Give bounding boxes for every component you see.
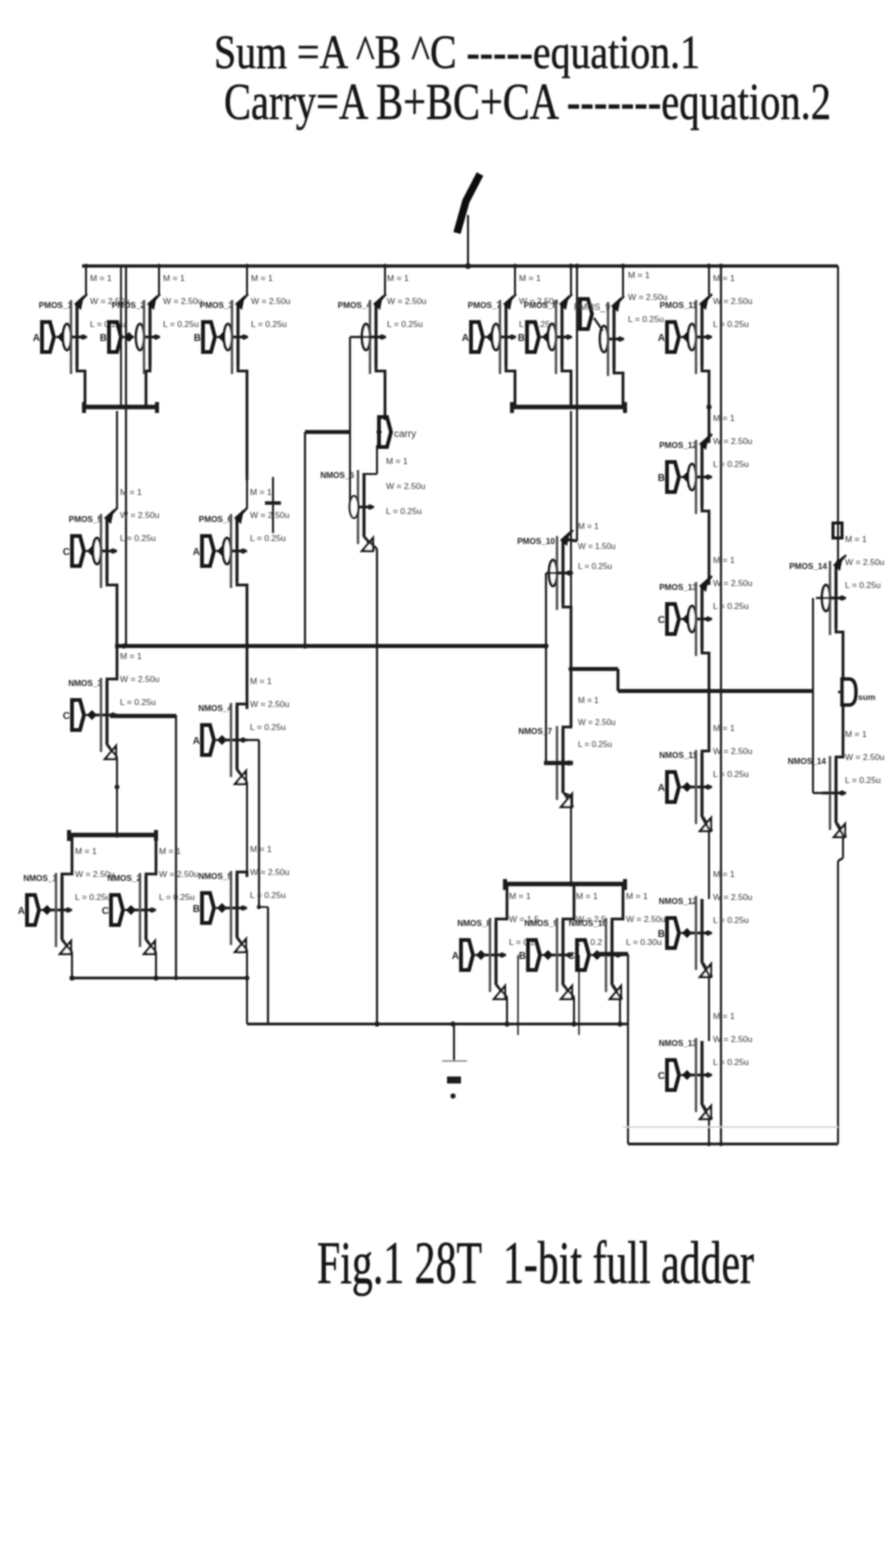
- wire NMOS_4 source: [237, 770, 247, 782]
- wire NMOS_8 gate tail: [517, 955, 519, 1035]
- svg-text:W = 2.50u: W = 2.50u: [250, 510, 290, 520]
- svg-text:L = 0.25u: L = 0.25u: [75, 892, 111, 902]
- wire NMOS_10 source: [612, 985, 620, 997]
- svg-text:L = 0.25u: L = 0.25u: [250, 890, 286, 900]
- svg-text:W = 2.50u: W = 2.50u: [120, 674, 160, 684]
- svg-text:L = 0.25u: L = 0.25u: [713, 601, 749, 611]
- svg-text:M = 1: M = 1: [628, 270, 650, 280]
- wire NMOS_13 source: [702, 1105, 709, 1117]
- node rail junctions: [84, 264, 88, 268]
- svg-text:B: B: [100, 333, 107, 344]
- wire PMOS_13 drain: [702, 647, 709, 691]
- svg-text:L = 0.30u: L = 0.30u: [626, 937, 662, 947]
- wire gate net x546: [545, 573, 547, 763]
- svg-text:W = 2.50u: W = 2.50u: [251, 296, 291, 306]
- wire net x571 mid: [570, 411, 572, 669]
- svg-text:M = 1: M = 1: [576, 891, 598, 901]
- svg-text:L = 0.25u: L = 0.25u: [713, 915, 749, 925]
- wire NMOS_8 drain: [496, 885, 507, 924]
- wire net pair left: [120, 266, 122, 407]
- svg-text:W = 2.50u: W = 2.50u: [845, 557, 885, 567]
- svg-text:NMOS_5: NMOS_5: [198, 872, 232, 881]
- svg-text:PMOS_3: PMOS_3: [200, 301, 234, 310]
- node bus junctions: [121, 643, 126, 648]
- wire NMOS_9 source: [563, 985, 574, 997]
- wire PMOS_10 source: [563, 539, 577, 541]
- wire gnd to bottom: [627, 1024, 629, 1144]
- svg-text:W = 1.50u: W = 1.50u: [578, 542, 616, 551]
- svg-text:PMOS_10: PMOS_10: [517, 537, 555, 546]
- svg-text:B: B: [658, 473, 665, 484]
- ghost line: [623, 1126, 838, 1128]
- svg-text:M = 1: M = 1: [120, 487, 142, 497]
- svg-text:C: C: [63, 711, 70, 722]
- vdd symbol: [467, 215, 469, 267]
- svg-text:PMOS_2: PMOS_2: [112, 301, 146, 310]
- pin sum output: [842, 679, 856, 705]
- svg-text:A: A: [193, 547, 200, 558]
- svg-text:A: A: [658, 783, 665, 794]
- svg-text:M = 1: M = 1: [713, 723, 735, 733]
- svg-text:Carry=A B+BC+CA -------equatio: Carry=A B+BC+CA -------equation.2: [224, 74, 831, 131]
- wire PMOS_9 drain: [614, 367, 623, 407]
- wire NMOS_9 gate tail: [578, 955, 580, 1035]
- wire carry gate drop: [304, 432, 306, 646]
- wire net x577: [576, 266, 578, 541]
- svg-text:M = 1: M = 1: [509, 891, 531, 901]
- svg-text:C: C: [658, 1071, 665, 1082]
- svg-text:PMOS_7: PMOS_7: [468, 301, 502, 310]
- svg-text:NMOS_7: NMOS_7: [518, 727, 552, 736]
- wire right edge bottom: [837, 861, 839, 1144]
- svg-text:C: C: [658, 615, 665, 626]
- wire nand1 bar: [84, 405, 157, 410]
- node NMOS_5 source junction: [245, 976, 250, 981]
- wire NMOS_5 source: [237, 938, 247, 950]
- svg-text:M = 1: M = 1: [250, 844, 272, 854]
- pin PMOS_9 raised: [580, 299, 592, 329]
- svg-text:W = 2.50u: W = 2.50u: [163, 296, 203, 306]
- svg-text:NMOS_12: NMOS_12: [659, 897, 698, 906]
- svg-text:W = 2.50u: W = 2.50u: [713, 296, 753, 306]
- svg-text:W = 2.50u: W = 2.50u: [386, 481, 426, 491]
- pin carry output: [379, 417, 391, 447]
- wire net B down-left: [125, 266, 127, 646]
- wire PMOS_2 source: [158, 266, 160, 295]
- wire right edge top: [837, 266, 839, 561]
- svg-text:W = 2.50u: W = 2.50u: [713, 746, 753, 756]
- wire NMOS_7 source: [563, 793, 571, 796]
- wire NMOS_9 drain: [563, 885, 574, 924]
- node ground junctions: [374, 1021, 379, 1026]
- svg-text:W = 2.50u: W = 2.50u: [578, 718, 616, 727]
- wire PMOS_5 drain: [107, 579, 117, 646]
- svg-text:PMOS_6: PMOS_6: [199, 515, 233, 524]
- svg-text:M = 1: M = 1: [387, 273, 409, 283]
- wire NMOS_11 drain: [702, 692, 709, 756]
- svg-text:L = 0.25u: L = 0.25u: [578, 562, 613, 571]
- wire nand2 bar: [512, 405, 625, 410]
- wire NMOS_10 drain: [612, 885, 623, 924]
- wire PMOS_9 source: [622, 266, 624, 297]
- wire PMOS_1 drain: [77, 365, 85, 407]
- wire NMOS_4 gate net: [247, 739, 259, 741]
- svg-text:L = 0.25u: L = 0.25u: [120, 697, 156, 707]
- wire NMOS_1 drain: [62, 836, 72, 879]
- node carry junction: [376, 429, 381, 434]
- svg-text:M = 1: M = 1: [120, 651, 142, 661]
- svg-text:W = 2.50u: W = 2.50u: [250, 699, 290, 709]
- svg-text:M = 1: M = 1: [626, 891, 648, 901]
- svg-text:M = 1: M = 1: [578, 522, 599, 531]
- node PMOS_11 drain junction: [706, 404, 711, 409]
- svg-text:L = 0.25u: L = 0.25u: [251, 319, 287, 329]
- svg-text:C: C: [102, 906, 109, 917]
- svg-text:B: B: [518, 333, 525, 344]
- wire bottom rail: [628, 1143, 838, 1146]
- svg-text:W = 2.50u: W = 2.50u: [626, 914, 666, 924]
- wire PMOS_10 drain: [563, 601, 571, 669]
- svg-text:L = 0.25u: L = 0.25u: [845, 775, 881, 785]
- svg-text:W = 2.50u: W = 2.50u: [120, 510, 160, 520]
- svg-text:PMOS_11: PMOS_11: [660, 301, 698, 310]
- svg-text:L = 0.25u: L = 0.25u: [713, 769, 749, 779]
- wire inverter gate: [812, 598, 814, 793]
- svg-text:M = 1: M = 1: [75, 846, 97, 856]
- wire NMOS_7 gate thick: [544, 761, 573, 765]
- svg-text:Sum =A ^B ^C -----equation.1: Sum =A ^B ^C -----equation.1: [214, 26, 700, 79]
- wire NMOS_2 source: [146, 940, 156, 952]
- wire nmos bar mid: [505, 882, 625, 887]
- svg-text:NMOS_4: NMOS_4: [198, 704, 232, 713]
- svg-text:L = 0.25u: L = 0.25u: [713, 1057, 749, 1067]
- svg-text:NMOS_14: NMOS_14: [788, 757, 827, 766]
- svg-text:M = 1: M = 1: [578, 696, 599, 705]
- svg-text:M = 1: M = 1: [386, 456, 408, 466]
- wire NMOS_1 source: [62, 940, 72, 952]
- svg-text:NMOS_11: NMOS_11: [659, 751, 697, 760]
- vdd rail: [82, 264, 838, 267]
- svg-text:NMOS_3: NMOS_3: [68, 679, 102, 688]
- svg-text:W = 2.50u: W = 2.50u: [159, 869, 199, 879]
- cross mark: [265, 501, 281, 505]
- node bar mid junction: [568, 881, 573, 886]
- svg-text:Fig.1 28T 1-bit full adder: Fig.1 28T 1-bit full adder: [317, 1230, 754, 1296]
- wire PMOS_7 drain: [506, 365, 515, 407]
- svg-text:L = 0.25u: L = 0.25u: [628, 314, 664, 324]
- svg-text:L = 0.25u: L = 0.25u: [159, 892, 195, 902]
- svg-text:M = 1: M = 1: [845, 729, 867, 739]
- svg-text:A: A: [18, 906, 25, 917]
- node source line junctions: [69, 975, 74, 980]
- svg-text:M = 1: M = 1: [713, 1011, 735, 1021]
- svg-text:carry: carry: [394, 429, 416, 440]
- svg-text:NMOS_13: NMOS_13: [659, 1039, 698, 1048]
- wire NMOS_3 source: [107, 745, 117, 757]
- svg-text:M = 1: M = 1: [713, 555, 735, 565]
- svg-text:NMOS_10: NMOS_10: [569, 919, 608, 928]
- svg-text:L = 0.25u: L = 0.25u: [713, 319, 749, 329]
- wire PMOS_3 drain: [238, 365, 247, 480]
- wire PMOS_10 gate: [546, 572, 558, 574]
- svg-text:L = 0.25u: L = 0.25u: [250, 533, 286, 543]
- node NMOS_3 source junction: [115, 785, 120, 790]
- wire NMOS_11 source: [702, 817, 709, 829]
- wire net right bus x721: [720, 266, 722, 1144]
- svg-text:C: C: [63, 547, 70, 558]
- wire PMOS_8 source: [570, 266, 572, 295]
- wire NMOS_6 drain: [364, 537, 377, 549]
- wire source line: [72, 977, 247, 980]
- svg-text:PMOS_4: PMOS_4: [338, 301, 372, 310]
- svg-text:M = 1: M = 1: [713, 273, 735, 283]
- wire PMOS_14 source: [836, 561, 838, 564]
- svg-text:M = 1: M = 1: [250, 487, 272, 497]
- wire PMOS_6 source: [246, 480, 248, 509]
- wire PMOS_11 source: [708, 266, 710, 295]
- wire PMOS_2 drain: [146, 365, 150, 407]
- wire PMOS_6 drain: [237, 579, 247, 706]
- svg-text:M = 1: M = 1: [251, 273, 273, 283]
- wire NMOS_8 source: [496, 985, 507, 997]
- svg-text:L = 0.25u: L = 0.25u: [713, 459, 749, 469]
- svg-text:A: A: [33, 333, 40, 344]
- svg-text:L = 0.25u: L = 0.25u: [578, 740, 613, 749]
- svg-text:NMOS_8: NMOS_8: [457, 919, 491, 928]
- wire NMOS_14 source: [836, 823, 843, 835]
- wire sum bus: [571, 667, 618, 671]
- svg-text:NMOS_9: NMOS_9: [524, 919, 558, 928]
- svg-text:W = 2.50u: W = 2.50u: [713, 1034, 753, 1044]
- wire PMOS_14 drain: [836, 626, 843, 679]
- wire ground rail: [247, 1023, 628, 1026]
- wire mid bus: [115, 644, 546, 648]
- wire PMOS_8 drain: [562, 365, 571, 407]
- wire NMOS_4 drain: [237, 704, 247, 709]
- wire NMOS_5 drain: [237, 872, 247, 877]
- svg-text:W = 2.50u: W = 2.50u: [713, 436, 753, 446]
- svg-text:NMOS_1: NMOS_1: [23, 874, 57, 883]
- svg-text:NMOS_2: NMOS_2: [107, 874, 141, 883]
- wire carry gate bar: [305, 430, 350, 434]
- svg-text:PMOS_8: PMOS_8: [524, 301, 558, 310]
- svg-text:B: B: [519, 951, 526, 962]
- node sum bus junctions: [568, 666, 573, 671]
- wire NMOS_3 gate thick: [110, 714, 176, 718]
- svg-text:C: C: [568, 951, 575, 962]
- svg-text:L = 0.25u: L = 0.25u: [163, 319, 199, 329]
- wire NMOS_3 drain: [107, 647, 117, 684]
- svg-text:M = 1: M = 1: [713, 413, 735, 423]
- ground symbol: [453, 1024, 455, 1061]
- wire NMOS_14 drain: [836, 706, 843, 762]
- svg-text:L = 0.25u: L = 0.25u: [845, 580, 881, 590]
- svg-text:L = 0.25u: L = 0.25u: [250, 722, 286, 732]
- svg-text:L = 0.25u: L = 0.25u: [120, 533, 156, 543]
- svg-text:NMOS_6: NMOS_6: [320, 471, 354, 480]
- svg-text:W = 2.50u: W = 2.50u: [713, 578, 753, 588]
- svg-text:M = 1: M = 1: [250, 676, 272, 686]
- svg-text:A: A: [658, 333, 665, 344]
- wire NMOS_7 drain: [563, 669, 571, 732]
- wire PMOS_4 source: [384, 266, 386, 295]
- svg-text:PMOS_9: PMOS_9: [574, 302, 611, 312]
- wire NMOS_3 gate drop: [175, 715, 177, 978]
- svg-text:M = 1: M = 1: [845, 534, 867, 544]
- wire NMOS_2 drain: [146, 836, 156, 879]
- node bottom junctions: [707, 1142, 711, 1146]
- svg-text:A: A: [452, 951, 459, 962]
- svg-text:M = 1: M = 1: [163, 273, 185, 283]
- node VDD junction: [465, 263, 471, 269]
- wire NMOS_6 source: [376, 445, 378, 474]
- wire NMOS_10 gate thick: [597, 952, 628, 956]
- svg-text:sum: sum: [858, 692, 876, 702]
- svg-text:L = 0.25u: L = 0.25u: [386, 506, 422, 516]
- svg-text:M = 1: M = 1: [713, 869, 735, 879]
- svg-text:W = 2.50u: W = 2.50u: [250, 867, 290, 877]
- svg-text:W = 2.50u: W = 2.50u: [845, 752, 885, 762]
- svg-text:M = 1: M = 1: [90, 273, 112, 283]
- node right edge tap: [833, 523, 842, 538]
- wire PMOS_7 source: [514, 266, 516, 295]
- svg-text:B: B: [193, 904, 200, 915]
- wire PMOS_5 source: [116, 411, 118, 509]
- svg-text:PMOS_12: PMOS_12: [659, 441, 697, 450]
- wire PMOS_12 drain: [702, 505, 709, 585]
- wire NMOS_12 source: [702, 963, 709, 975]
- svg-text:W = 2.50u: W = 2.50u: [713, 892, 753, 902]
- svg-text:PMOS_5: PMOS_5: [69, 515, 103, 524]
- svg-text:M = 1: M = 1: [519, 273, 541, 283]
- svg-text:A: A: [193, 736, 200, 747]
- svg-text:W = 2.50u: W = 2.50u: [387, 296, 427, 306]
- svg-text:PMOS_13: PMOS_13: [659, 583, 697, 592]
- svg-text:L = 0.25u: L = 0.25u: [387, 319, 423, 329]
- wire PMOS_11 drain: [702, 365, 709, 443]
- wire PMOS_3 source: [246, 266, 248, 295]
- svg-text:PMOS_14: PMOS_14: [789, 562, 827, 571]
- node bar junction: [114, 832, 119, 837]
- svg-text:A: A: [462, 333, 469, 344]
- svg-text:PMOS_1: PMOS_1: [39, 301, 73, 310]
- svg-text:M = 1: M = 1: [159, 846, 181, 856]
- wire PMOS_4 drain: [376, 365, 385, 420]
- node NMOS_4 gate jog: [257, 905, 261, 909]
- pmos PMOS_9: [600, 326, 608, 352]
- wire PMOS_4 gate net: [350, 336, 371, 338]
- wire nmos bar left: [69, 833, 156, 838]
- wire PMOS_1 source: [85, 266, 87, 295]
- svg-text:B: B: [194, 333, 201, 344]
